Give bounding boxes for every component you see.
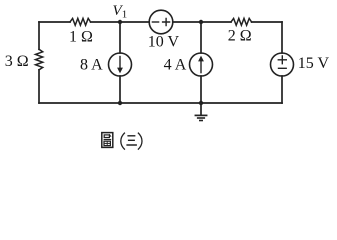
caption glyph SAN (three) top bar <box>127 135 135 137</box>
ground stub wire <box>200 103 202 115</box>
svg-text:1 Ω: 1 Ω <box>69 28 93 45</box>
voltage source V 10V circle <box>149 10 173 34</box>
resistor R1 1 ohm zigzag <box>70 18 91 25</box>
current source I1 8A circle <box>109 53 132 76</box>
wire left rail lower <box>38 70 40 103</box>
wire right rail lower <box>281 76 283 103</box>
10V plus sign <box>163 19 170 26</box>
wire bottom rail <box>39 102 282 104</box>
voltage source V 15V circle <box>271 53 294 76</box>
wire 4A to bottom rail <box>200 76 202 103</box>
ground bar 1 <box>195 114 206 116</box>
caption glyph TU (figure) <box>102 133 113 148</box>
wire right rail upper <box>281 22 283 53</box>
resistor R3 3 ohm vertical zigzag <box>36 49 43 70</box>
caption glyph SAN middle bar <box>128 139 135 141</box>
4A arrow shaft <box>200 60 201 74</box>
current source I2 4A circle <box>190 53 213 76</box>
caption close paren <box>138 133 142 150</box>
wire R2 to top-right corner <box>252 21 282 23</box>
svg-text:8 A: 8 A <box>80 57 103 74</box>
node dot bottom right (ground node) <box>199 101 203 105</box>
resistor R2 2 ohm zigzag <box>231 18 252 25</box>
15V plus sign <box>278 56 286 64</box>
ground bar 3 <box>200 120 202 122</box>
node dot V1 top <box>118 20 122 24</box>
10V minus sign <box>152 21 158 23</box>
wire 10V source to R2 (through node) <box>173 21 231 23</box>
svg-text:15 V: 15 V <box>298 55 330 72</box>
wire R1 to 10V source (through node V1) <box>91 21 150 23</box>
4A arrowhead (up) <box>198 56 204 62</box>
svg-text:2 Ω: 2 Ω <box>228 27 252 44</box>
ground bar 2 <box>198 117 205 119</box>
node dot top node2 <box>199 20 203 24</box>
8A arrowhead (down) <box>117 68 123 74</box>
wire 8A to bottom rail <box>119 76 121 103</box>
15V minus sign <box>279 67 287 69</box>
svg-text:1: 1 <box>122 9 128 21</box>
8A arrow shaft <box>119 56 120 70</box>
wire left rail upper <box>38 22 40 49</box>
caption open paren <box>121 133 125 150</box>
svg-text:10 V: 10 V <box>148 33 180 50</box>
wire node2 down to 4A <box>200 22 202 53</box>
svg-text:4 A: 4 A <box>164 56 187 73</box>
svg-text:3 Ω: 3 Ω <box>5 53 29 70</box>
caption glyph SAN bottom bar <box>126 144 136 146</box>
node dot bottom left <box>118 101 122 105</box>
wire branch V1 node down to 8A <box>119 22 121 53</box>
wire top-left segment <box>39 21 70 23</box>
